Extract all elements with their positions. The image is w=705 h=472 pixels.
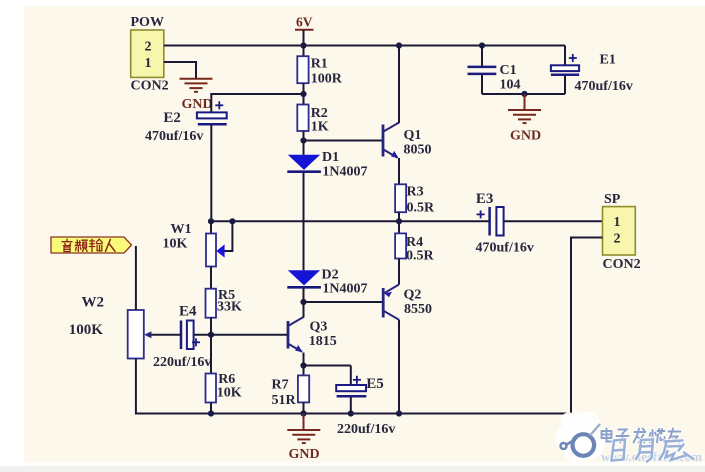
resistor R5 bbox=[206, 289, 217, 318]
svg-text:R3: R3 bbox=[407, 185, 424, 200]
plus sign E1 bbox=[569, 54, 577, 62]
junction dot top rail / Q1 collector bbox=[396, 42, 402, 48]
junction dot R1/R2/E2 bbox=[300, 91, 306, 97]
banner glyph 输 bbox=[89, 239, 102, 251]
plus sign E5 bbox=[353, 376, 361, 384]
glyph 日 bbox=[612, 440, 626, 461]
6V bar bbox=[295, 29, 314, 31]
wire R6 to bottom rail bbox=[210, 403, 212, 414]
resistor R6 bbox=[206, 374, 217, 403]
svg-text:C1: C1 bbox=[500, 63, 517, 78]
svg-text:D2: D2 bbox=[322, 267, 339, 282]
glyph 烧 bbox=[650, 429, 665, 443]
glyph 友 bbox=[668, 429, 681, 443]
resistor R4 bbox=[395, 233, 406, 258]
transistor Q1 8050 (NPN) bbox=[383, 123, 399, 158]
junction dot mid rail / W1 top bbox=[208, 218, 214, 224]
diode D2 1N4007 bbox=[288, 270, 320, 285]
diode D1 1N4007 bbox=[288, 155, 320, 170]
svg-text:470uf/16v: 470uf/16v bbox=[476, 241, 534, 256]
svg-text:2: 2 bbox=[145, 40, 152, 55]
svg-text:100R: 100R bbox=[311, 72, 343, 87]
svg-text:W1: W1 bbox=[171, 222, 192, 237]
wire Q3 collector stub bbox=[303, 302, 305, 318]
resistor R1 bbox=[303, 46, 305, 57]
svg-text:SP: SP bbox=[604, 192, 621, 207]
watermark text 电子发烧友 (stylized strokes) bbox=[602, 429, 681, 443]
svg-text:2: 2 bbox=[614, 232, 621, 247]
svg-text:1N4007: 1N4007 bbox=[322, 165, 367, 180]
wire R3 to mid rail bbox=[398, 212, 400, 233]
capacitor E1 (electrolytic) bbox=[564, 46, 566, 66]
Q2 emitter arrowhead (points to bar) bbox=[384, 292, 392, 298]
junction dot rail/R7 bbox=[300, 410, 306, 416]
plus sign E4 bbox=[192, 338, 200, 346]
watermark leaf (white) bbox=[555, 409, 605, 463]
capacitor E3 (electrolytic, horizontal) bbox=[488, 207, 491, 236]
wire node to Q2 base bbox=[304, 301, 383, 303]
banner glyph 频 bbox=[75, 240, 87, 252]
wire base node to Q3 base bbox=[194, 334, 288, 336]
junction dot GND2 tap bbox=[521, 91, 527, 97]
banner glyph 入 bbox=[106, 240, 116, 252]
wire W2 bottom to rail bbox=[135, 359, 137, 415]
wire D2 cathode to Q3 collector node bbox=[303, 288, 305, 302]
ground symbol GND1 (under POW) bbox=[180, 79, 213, 92]
potentiometer W2 100K bbox=[128, 310, 144, 359]
watermark ring symbol bbox=[573, 434, 595, 456]
svg-text:E5: E5 bbox=[366, 376, 384, 392]
svg-text:GND: GND bbox=[510, 129, 541, 144]
svg-text:0.5R: 0.5R bbox=[407, 201, 436, 216]
capacitor E4 (electrolytic, horizontal) bbox=[180, 321, 183, 350]
W1 wiper arrowhead bbox=[216, 244, 224, 257]
svg-text:E1: E1 bbox=[600, 53, 616, 68]
junction dot rail/R6 bbox=[208, 410, 214, 416]
wire E4 left plate to W2 wiper bbox=[147, 334, 181, 336]
junction dot rail/E5 bbox=[348, 410, 354, 416]
connector SP (yellow header box) bbox=[603, 207, 636, 255]
svg-text:CON2: CON2 bbox=[131, 79, 169, 94]
svg-text:1N4007: 1N4007 bbox=[322, 281, 367, 296]
wire junction to E2 top bbox=[211, 94, 303, 112]
junction dot mid rail / R3 R4 bbox=[396, 218, 402, 224]
svg-text:51R: 51R bbox=[272, 393, 297, 408]
wire Q1 collector up to rail bbox=[398, 46, 400, 124]
glyph 电 bbox=[602, 429, 614, 442]
plus sign E2 bbox=[215, 101, 223, 109]
glyph 月 bbox=[636, 440, 653, 462]
svg-text:E2: E2 bbox=[163, 110, 181, 126]
glyph 发 bbox=[634, 429, 646, 443]
svg-text:Q1: Q1 bbox=[404, 128, 422, 143]
svg-text:CON2: CON2 bbox=[603, 257, 641, 272]
junction dot Q1 base tap bbox=[300, 137, 306, 143]
glyph 子 bbox=[617, 430, 629, 443]
ground stub GND2 bbox=[524, 94, 526, 110]
wire POW pin2 to top rail bbox=[164, 45, 304, 47]
svg-text:0.5R: 0.5R bbox=[406, 249, 435, 264]
svg-text:6V: 6V bbox=[296, 15, 313, 30]
svg-text:GND: GND bbox=[182, 97, 213, 112]
svg-text:1815: 1815 bbox=[309, 334, 337, 349]
transistor Q2 8550 (PNP) bbox=[383, 285, 399, 320]
svg-text:33K: 33K bbox=[217, 300, 242, 315]
wire SP pin2 down to bottom rail bbox=[571, 238, 603, 414]
W1 wiper wire bbox=[224, 221, 233, 251]
capacitor E2 (electrolytic) bbox=[197, 112, 227, 118]
svg-text:8550: 8550 bbox=[404, 302, 432, 317]
transistor Q3 1815 (NPN) bbox=[288, 317, 304, 352]
junction dot R5/R6/E4/Q3 base bbox=[208, 332, 214, 338]
svg-text:R1: R1 bbox=[311, 57, 328, 72]
wire to Q1 base bbox=[304, 140, 384, 142]
resistor R3 bbox=[395, 184, 406, 212]
W2 wiper arrowhead bbox=[144, 331, 151, 338]
svg-text:1: 1 bbox=[145, 56, 152, 71]
svg-text:1: 1 bbox=[614, 215, 621, 230]
svg-text:8050: 8050 bbox=[404, 143, 432, 158]
svg-text:R7: R7 bbox=[272, 378, 289, 393]
wire W1 bottom to R5 bbox=[210, 267, 212, 289]
glyph 辰 bbox=[660, 441, 694, 461]
bottom rail bbox=[136, 413, 571, 415]
wire E2 bottom down to W1 rail bbox=[210, 124, 212, 221]
resistor R7 bbox=[298, 375, 309, 402]
connector J1 POW (yellow header box) bbox=[131, 30, 164, 77]
svg-text:1K: 1K bbox=[311, 120, 329, 135]
svg-text:E3: E3 bbox=[476, 191, 494, 207]
svg-text:220uf/16v: 220uf/16v bbox=[153, 355, 211, 370]
wire R7 to rail bbox=[303, 402, 305, 413]
svg-text:100K: 100K bbox=[69, 322, 104, 338]
wire Q3 emitter down bbox=[303, 353, 305, 376]
svg-text:POW: POW bbox=[131, 15, 164, 30]
wire E3 to SP pin1 bbox=[504, 220, 603, 222]
capacitor C1 104 bbox=[481, 46, 483, 67]
svg-text:220uf/16v: 220uf/16v bbox=[337, 422, 395, 437]
svg-text:10K: 10K bbox=[217, 386, 242, 401]
junction dot Q3 collector / Q2 base bbox=[300, 299, 306, 305]
svg-text:D1: D1 bbox=[322, 150, 339, 165]
plus sign E3 bbox=[477, 210, 485, 218]
svg-text:W2: W2 bbox=[82, 295, 105, 311]
wire top rail to E1 corner bbox=[304, 45, 566, 47]
svg-text:470uf/16v: 470uf/16v bbox=[575, 79, 633, 94]
junction dot Q3 emitter / R7 / E5 bbox=[300, 362, 306, 368]
wire Q1 emitter to R3 bbox=[398, 158, 400, 184]
banner glyph 音 bbox=[62, 239, 72, 251]
junction dot top rail / 6V bbox=[300, 42, 306, 48]
mid output rail bbox=[211, 220, 489, 222]
svg-text:GND: GND bbox=[289, 447, 320, 462]
wire R1 to R2 bbox=[303, 83, 305, 104]
svg-text:104: 104 bbox=[500, 78, 521, 93]
junction dot rail/Q2 collector bbox=[396, 410, 402, 416]
watermark text 日月辰 (stylized strokes) bbox=[612, 440, 694, 462]
resistor R2 bbox=[297, 105, 308, 132]
junction dot mid rail / W1 wiper bbox=[229, 218, 235, 224]
wire R2 to D1 bbox=[303, 131, 305, 155]
wire R5 to base node bbox=[210, 318, 212, 374]
ground stub GND3 bbox=[303, 414, 305, 430]
svg-text:Q2: Q2 bbox=[404, 288, 422, 303]
wire audio input to W2 top bbox=[135, 246, 137, 310]
wire D1 cathode down across mid rail to D2 bbox=[303, 173, 305, 271]
svg-text:470uf/16v: 470uf/16v bbox=[145, 129, 203, 144]
Q1 emitter arrowhead bbox=[391, 151, 399, 158]
svg-text:Q3: Q3 bbox=[310, 320, 328, 335]
capacitor E5 (electrolytic) bbox=[304, 365, 351, 367]
svg-text:10K: 10K bbox=[163, 237, 188, 252]
wire E5 bottom to rail bbox=[350, 398, 352, 414]
wire E1 bottom / C1 bottom rail bbox=[564, 76, 566, 94]
6V stub wire bbox=[303, 30, 305, 46]
wire R4 to Q2 emitter bbox=[398, 259, 400, 285]
net label banner 音频输入 (audio input) bbox=[51, 237, 132, 253]
svg-text:E4: E4 bbox=[179, 304, 197, 320]
junction dot top rail / C1 bbox=[479, 42, 485, 48]
potentiometer W1 10K bbox=[210, 221, 212, 233]
wire Q2 collector down to bottom rail bbox=[398, 320, 400, 414]
ground symbol GND2 bbox=[508, 110, 541, 123]
ground symbol GND3 bbox=[287, 430, 320, 443]
Q3 emitter arrowhead bbox=[295, 345, 303, 352]
bottom gray strip bbox=[24, 463, 705, 467]
wire POW pin1 to ground bbox=[164, 62, 196, 78]
